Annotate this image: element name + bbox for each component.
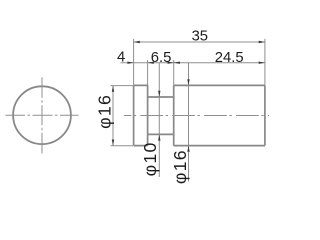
left phi16: top arrow [112,86,114,92]
svg-text:4: 4 [117,50,125,66]
svg-text:φ10: φ10 [140,141,160,176]
svg-text:6.5: 6.5 [151,50,172,66]
front view horizontal centerline [6,114,79,116]
left phi16: dimension line [112,86,114,146]
svg-text:φ16: φ16 [170,149,190,184]
left phi16: top extension line [111,85,134,87]
left phi16: bottom extension line [111,145,134,147]
left phi16: bottom arrow [112,140,114,146]
front view vertical centerline [41,77,43,153]
side view outline: body [174,85,265,145]
svg-text:35: 35 [192,29,208,45]
phi10: bottom arrow (pointing up, tip at neck bottom) [158,134,160,140]
extension line right (x=264.9 above part) [264,39,266,86]
front view circle (phi 16 disc face) [13,86,71,144]
arrow at 147.6 (pointing left) [148,62,154,64]
side view outline: neck [148,97,174,134]
side view outline: disc [134,85,148,145]
arrow 24.5 left (pointing left) [174,62,180,64]
phi10: dimension line [158,63,160,177]
dimension line row 2 (4 / 6.5 / 24.5) [121,62,265,64]
extension line left (x=133.6 above part) [133,39,135,86]
dimension line 35 [134,41,265,43]
arrow 6.5 right (pointing right) [168,62,174,64]
arrow 35 left [134,41,140,43]
svg-text:φ16: φ16 [95,94,115,129]
arrow 24.5 right (pointing right) [259,62,265,64]
extension line disc right (x=147.6 above part) [147,60,149,85]
phi10: top arrow (pointing down, tip at neck top) [158,91,160,97]
side view centerline [124,115,269,117]
body phi16: bottom arrow (pointing up, tip at body bottom) [187,146,189,152]
arrow 4 left (outside, pointing right) [127,62,133,64]
body phi16: dimension line [188,63,190,182]
extension line body left (x=173.7 above part) [173,60,175,85]
svg-text:24.5: 24.5 [215,50,244,66]
side view vertical edges [134,85,265,145]
body phi16: top arrow (pointing down, tip at body top) [187,79,189,85]
arrow 35 right [259,41,265,43]
